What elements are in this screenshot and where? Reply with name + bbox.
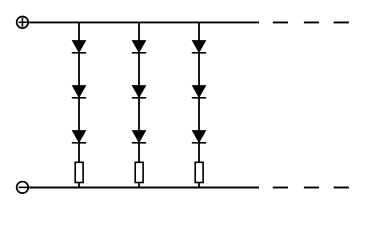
bottom rail wire — [29, 187, 259, 189]
wire resistor R2 to bottom rail — [138, 183, 140, 187]
negative terminal - — [17, 182, 29, 194]
diode D9 — [192, 131, 206, 144]
wire branch 1 — [78, 22, 80, 162]
diode D5 — [132, 86, 146, 99]
bottom rail dashed continuation — [273, 187, 349, 189]
resistor R1 — [75, 162, 83, 182]
diode D3 — [72, 131, 86, 144]
wire resistor R3 to bottom rail — [198, 183, 200, 187]
wire resistor R1 to bottom rail — [78, 183, 80, 187]
top rail dashed continuation — [273, 21, 349, 23]
wire branch 3 — [198, 22, 200, 162]
resistor R3 — [195, 162, 203, 182]
top rail wire — [29, 21, 259, 23]
diode D2 — [72, 86, 86, 99]
resistor R2 — [135, 162, 143, 182]
diode D4 — [132, 41, 146, 54]
positive terminal + — [17, 17, 29, 29]
diode D6 — [132, 131, 146, 144]
diode D7 — [192, 41, 206, 54]
diode D8 — [192, 86, 206, 99]
diode D1 — [72, 41, 86, 54]
wire branch 2 — [138, 22, 140, 162]
